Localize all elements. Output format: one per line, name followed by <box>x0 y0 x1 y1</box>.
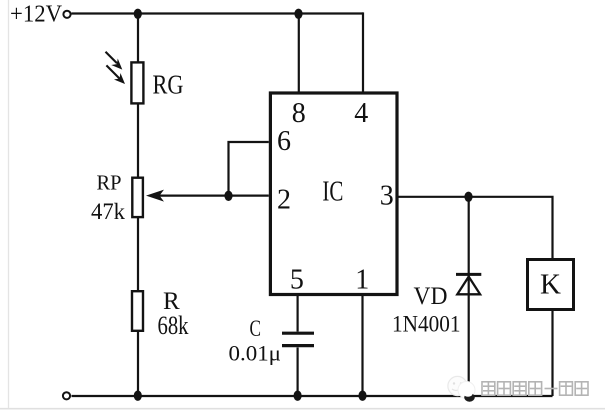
svg-text:IC: IC <box>322 177 343 208</box>
svg-text:4: 4 <box>354 98 368 129</box>
svg-text:68k: 68k <box>158 311 189 340</box>
svg-text:1: 1 <box>355 265 369 296</box>
svg-text:C: C <box>250 316 262 341</box>
svg-text:2: 2 <box>277 185 291 216</box>
svg-text:RP: RP <box>97 171 122 195</box>
svg-text:K: K <box>540 269 561 301</box>
svg-text:VD: VD <box>414 283 448 310</box>
svg-text:1N4001: 1N4001 <box>392 311 461 336</box>
svg-text:8: 8 <box>292 98 306 129</box>
svg-text:+12V: +12V <box>10 1 63 27</box>
svg-text:47k: 47k <box>91 199 125 225</box>
svg-text:RG: RG <box>153 70 184 100</box>
svg-text:6: 6 <box>277 126 291 157</box>
svg-text:0.01μ: 0.01μ <box>229 341 282 366</box>
svg-text:3: 3 <box>380 181 394 212</box>
svg-text:5: 5 <box>290 265 304 296</box>
